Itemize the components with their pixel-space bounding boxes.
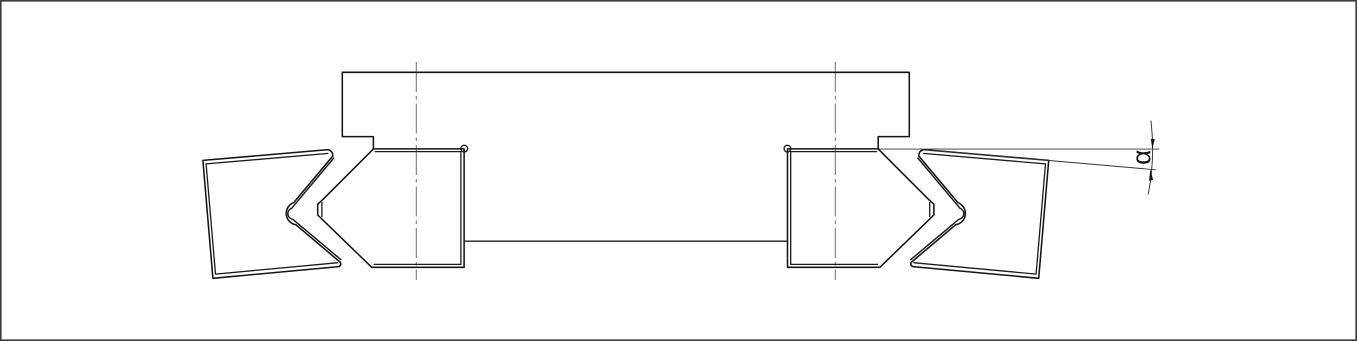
left V-ring seal apex inner line	[321, 202, 323, 217]
dimension arrowhead top	[1151, 139, 1155, 149]
angle label alpha	[1136, 151, 1150, 164]
right thrust plate notch inner lines (mirrored)	[910, 158, 963, 260]
left thrust plate inner edge lines	[206, 153, 338, 274]
left lip contact circle	[461, 145, 468, 152]
dimension arrowhead bottom	[1149, 169, 1153, 180]
left thrust plate notch inner lines	[288, 158, 341, 260]
right thrust plate inner edge lines (mirrored)	[913, 153, 1045, 274]
housing cross-section outline	[342, 72, 909, 149]
centerline right seal	[834, 62, 836, 280]
right V-ring seal inner edge lines (mirrored)	[791, 152, 878, 265]
centerline left seal	[415, 62, 417, 280]
right V-ring seal body (mirrored)	[788, 149, 934, 267]
left V-ring seal inner edge lines	[374, 152, 461, 265]
shaft line between seals	[464, 240, 787, 242]
dimension arc	[1148, 121, 1152, 195]
dimension extension line horizontal	[879, 148, 1160, 150]
right lip contact circle (mirrored)	[784, 145, 791, 152]
right thrust plate outer outline (mirrored)	[911, 150, 1049, 279]
right V-ring seal apex inner line (mirrored)	[929, 202, 931, 217]
left thrust plate outer outline	[203, 150, 341, 279]
dimension extension line slanted	[925, 150, 1156, 170]
left V-ring seal body	[318, 149, 464, 267]
